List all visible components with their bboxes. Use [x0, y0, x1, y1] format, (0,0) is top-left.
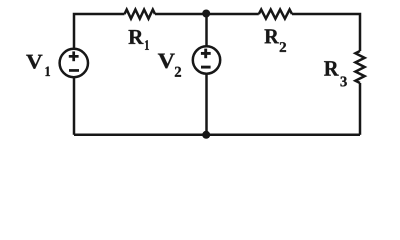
resistor R1 [125, 10, 156, 19]
wire top rail left segment [74, 14, 125, 48]
wire top rail middle segment [155, 13, 259, 16]
label R3 [324, 61, 339, 75]
V1 minus sign [69, 69, 79, 72]
label V1 [26, 55, 42, 69]
V1 plus sign [69, 55, 79, 58]
resistor R3 [355, 51, 364, 83]
node junction dot bottom [202, 131, 210, 139]
wire top rail right segment and right drop [292, 14, 360, 51]
wire bottom rail [74, 134, 360, 137]
label R1 [129, 30, 144, 44]
V2 plus sign [201, 52, 211, 55]
wire right lower segment [359, 83, 362, 135]
voltage source V2 circle [193, 46, 220, 73]
label V2 [158, 54, 175, 69]
wire V2 top segment [205, 14, 208, 46]
wire left lower segment [73, 77, 76, 135]
node junction dot top [202, 10, 210, 18]
voltage source V1 circle [60, 49, 88, 77]
V2 minus sign [201, 66, 211, 69]
label R2 [265, 29, 279, 43]
resistor R2 [259, 10, 292, 19]
wire V2 bottom segment [205, 73, 208, 134]
